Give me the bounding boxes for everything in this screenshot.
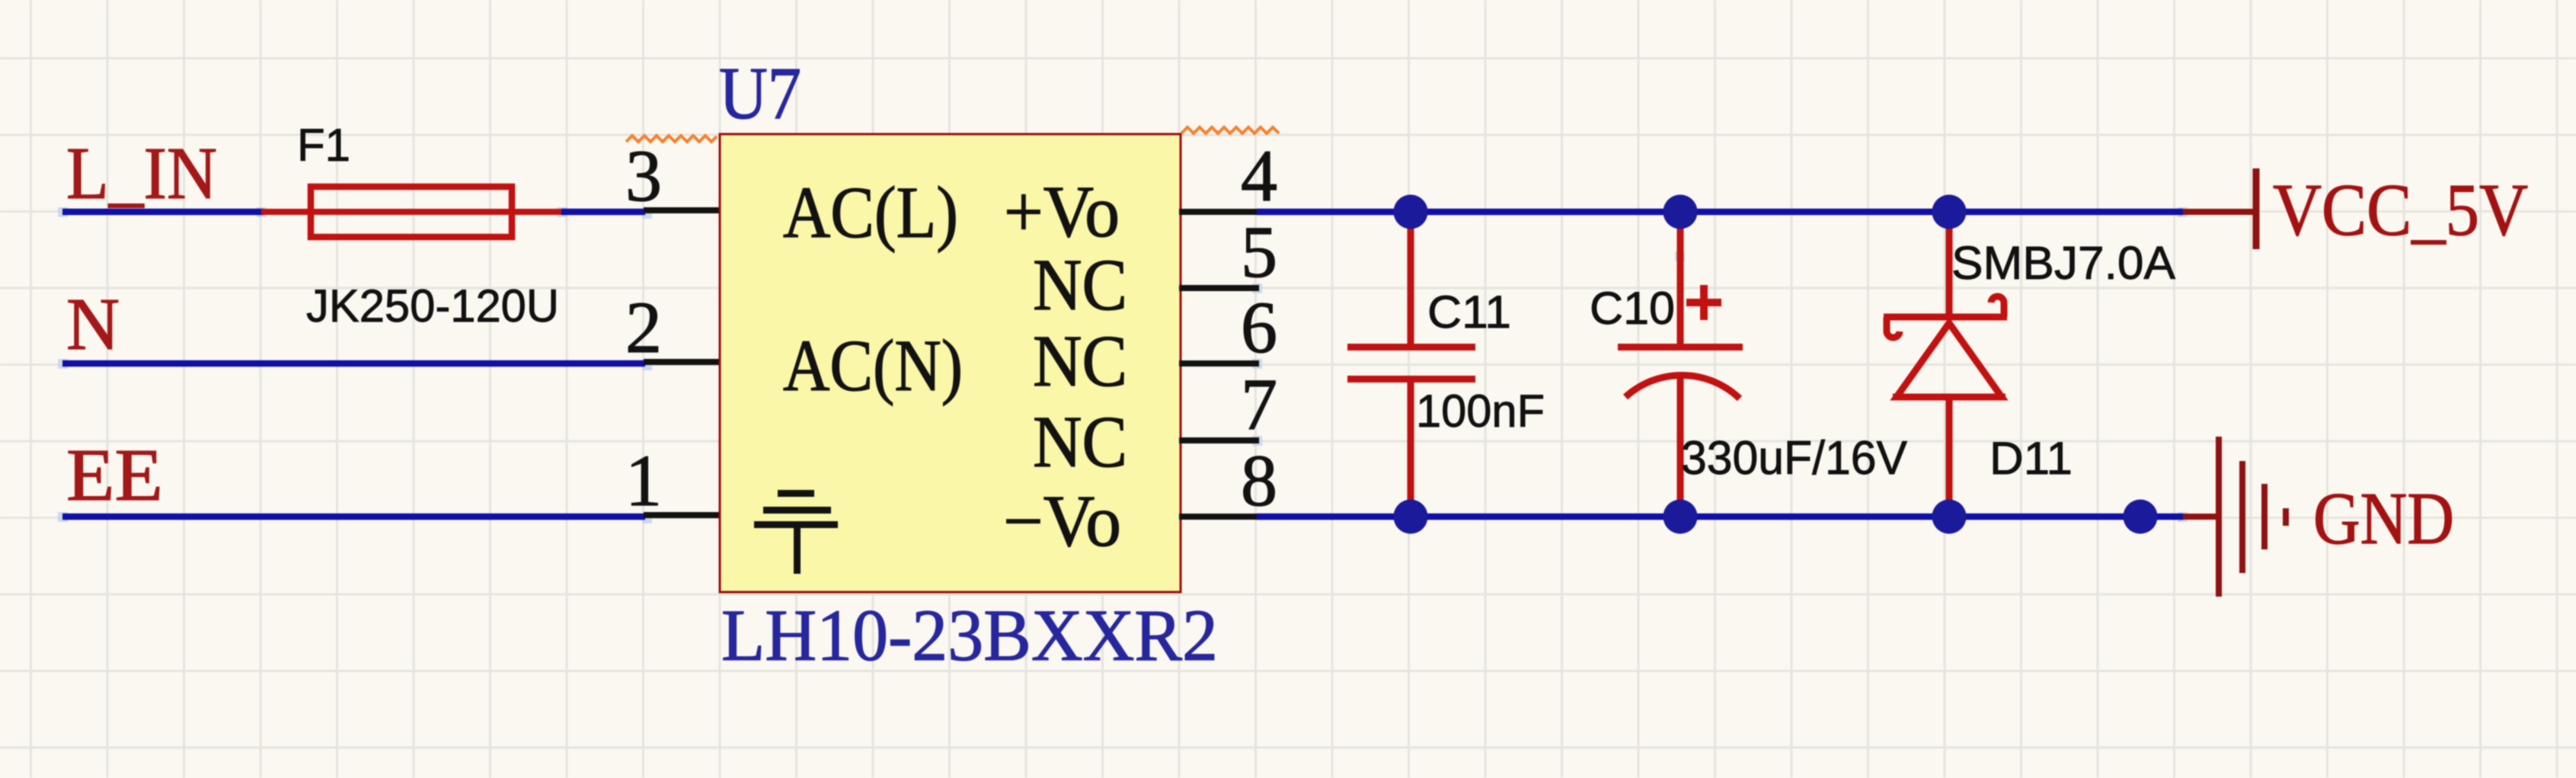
junction dot bottom D11 [1932, 500, 1967, 534]
wire L_IN left segment [62, 209, 264, 216]
svg-text:NC: NC [1033, 320, 1127, 402]
pin 2 [644, 359, 722, 365]
pin 3 [644, 207, 722, 213]
VCC_5V power stub [2183, 209, 2253, 215]
svg-text:F1: F1 [297, 120, 350, 171]
svg-text:1: 1 [625, 440, 662, 521]
svg-text:SMBJ7.0A: SMBJ7.0A [1951, 237, 2175, 289]
pin 8 [1179, 514, 1259, 520]
svg-text:NC: NC [1033, 244, 1127, 325]
GND bars [2219, 437, 2286, 597]
svg-text:−Vo: −Vo [1003, 480, 1121, 562]
svg-text:330uF/16V: 330uF/16V [1681, 432, 1908, 485]
svg-text:6: 6 [1241, 287, 1277, 368]
pin 5 [1179, 285, 1259, 291]
pin 7 [1179, 437, 1259, 443]
pin 1 [644, 512, 722, 518]
polarity plus [1686, 285, 1721, 320]
junction dot top C10 [1664, 195, 1698, 229]
svg-text:EE: EE [66, 434, 163, 516]
junction dot bottom C11 [1394, 500, 1428, 534]
GND power stub [2183, 514, 2217, 520]
svg-text:3: 3 [625, 135, 662, 216]
error squiggle right [1181, 127, 1279, 133]
fuse F1 right lead [515, 209, 561, 215]
svg-text:+Vo: +Vo [1004, 171, 1120, 252]
wire -Vo net (bottom) [1257, 514, 2183, 520]
svg-text:C10: C10 [1590, 283, 1675, 334]
svg-text:GND: GND [2313, 478, 2454, 560]
svg-text:AC(N): AC(N) [783, 325, 963, 406]
capacitor C11 [1347, 213, 1475, 515]
junction dot top D11 [1932, 195, 1967, 229]
fuse F1 body [311, 187, 512, 237]
svg-text:7: 7 [1241, 363, 1277, 445]
junction dot bottom GND [2124, 500, 2158, 534]
pin 6 [1179, 360, 1259, 367]
pin endpoint markers (pale blue) [58, 207, 2188, 523]
wire +Vo net (top) [1257, 209, 2183, 216]
svg-text:NC: NC [1033, 401, 1127, 482]
wire fuse to pin3 [561, 209, 645, 216]
TVS diode D11 [1884, 219, 2007, 515]
VCC_5V bar [2253, 168, 2260, 249]
IC U7 body [720, 134, 1181, 592]
svg-text:L_IN: L_IN [66, 133, 217, 214]
svg-text:JK250-120U: JK250-120U [306, 280, 559, 331]
fuse F1 left lead [261, 209, 308, 215]
svg-text:4: 4 [1241, 135, 1277, 216]
svg-text:5: 5 [1241, 211, 1277, 293]
earth symbol inside U7 [754, 494, 838, 575]
wire EE [62, 514, 645, 520]
svg-text:2: 2 [625, 287, 662, 368]
svg-text:D11: D11 [1990, 433, 2073, 484]
svg-text:C11: C11 [1427, 287, 1511, 338]
svg-text:100nF: 100nF [1416, 386, 1545, 437]
wire N [62, 360, 645, 367]
capacitor C10 (polarized) [1618, 221, 1743, 515]
error squiggle left [626, 136, 717, 142]
svg-text:N: N [66, 283, 120, 365]
svg-text:AC(L): AC(L) [783, 171, 958, 253]
junction dot bottom C10 [1664, 500, 1698, 534]
svg-text:8: 8 [1241, 440, 1277, 521]
fuse F1 through-line [308, 209, 515, 215]
svg-text:LH10-23BXXR2: LH10-23BXXR2 [721, 594, 1218, 676]
svg-text:VCC_5V: VCC_5V [2273, 169, 2528, 251]
pin 4 [1179, 209, 1259, 215]
junction dot top C11 [1394, 195, 1428, 229]
svg-text:U7: U7 [719, 53, 801, 134]
